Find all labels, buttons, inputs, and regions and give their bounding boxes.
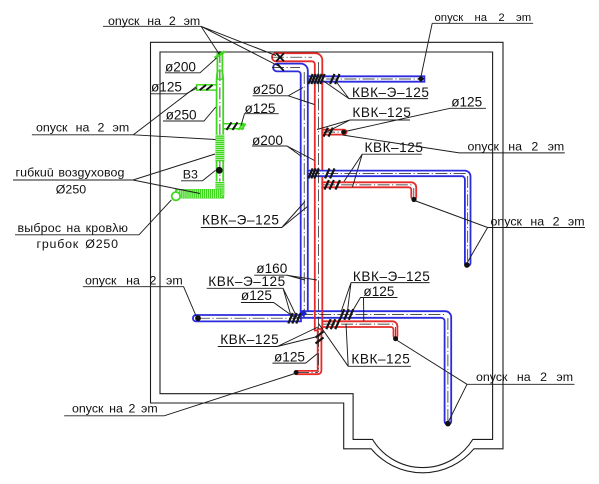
svg-text:ø125: ø125 (245, 101, 276, 116)
svg-text:ø200: ø200 (165, 59, 196, 74)
svg-text:выброс на кровλю: выброс на кровλю (18, 221, 129, 235)
svg-text:оnуск на 2 эm: оnуск на 2 эm (476, 370, 573, 384)
svg-text:ø200: ø200 (252, 133, 283, 148)
svg-text:Ø250: Ø250 (56, 183, 86, 197)
svg-text:оnуск на 2 эm: оnуск на 2 эm (85, 274, 183, 288)
svg-text:КВК–Э–125: КВК–Э–125 (208, 274, 285, 289)
svg-text:ø125: ø125 (151, 80, 182, 95)
svg-text:оnуск на 2 эm: оnуск на 2 эm (468, 139, 565, 153)
svg-text:В3: В3 (183, 168, 198, 182)
svg-text:ø125: ø125 (241, 288, 272, 303)
svg-text:оnуск на 2 эm: оnуск на 2 эm (72, 402, 158, 416)
svg-text:оnуск на 2 эm: оnуск на 2 эm (36, 121, 129, 135)
svg-text:КВК–125: КВК–125 (220, 332, 279, 347)
svg-text:КВК–125: КВК–125 (351, 352, 410, 367)
svg-text:КВК–Э–125: КВК–Э–125 (202, 213, 279, 228)
svg-text:КВК–125: КВК–125 (352, 105, 411, 120)
svg-text:оnуск на 2 эm: оnуск на 2 эm (108, 14, 200, 28)
svg-text:гuбкuū возgуховоg: гuбкuū возgуховоg (16, 166, 125, 180)
svg-text:ø125: ø125 (274, 349, 305, 364)
svg-text:ø125: ø125 (363, 284, 394, 299)
svg-text:ø125: ø125 (451, 95, 482, 110)
svg-text:оnуск на 2 эm: оnуск на 2 эm (491, 214, 585, 228)
svg-text:ø250: ø250 (253, 82, 284, 97)
svg-text:КВК–125: КВК–125 (365, 140, 424, 155)
svg-text:ø250: ø250 (166, 108, 197, 123)
svg-text:КВК–Э–125: КВК–Э–125 (352, 85, 429, 100)
svg-text:оnуск на 2 эm: оnуск на 2 эm (435, 12, 532, 24)
svg-text:грuбок Ø250: грuбок Ø250 (37, 237, 119, 251)
svg-text:КВК–Э–125: КВК–Э–125 (353, 269, 430, 284)
